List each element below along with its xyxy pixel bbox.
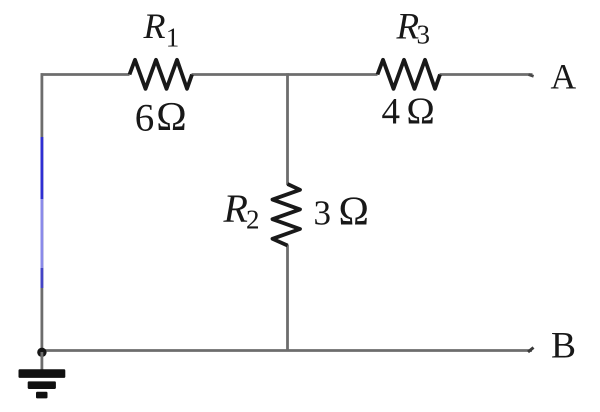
svg-text:R: R bbox=[223, 186, 248, 231]
resistor R1 bbox=[130, 60, 193, 89]
ground bar 1 bbox=[19, 369, 66, 378]
wire left vertical bbox=[41, 73, 44, 351]
wire middle vertical lower (R2 to bottom wire) bbox=[286, 245, 289, 352]
ground stub wire bbox=[41, 352, 44, 371]
svg-text:6: 6 bbox=[135, 97, 155, 140]
svg-text:Ω: Ω bbox=[406, 91, 435, 133]
resistor R3 bbox=[378, 60, 441, 89]
svg-text:3: 3 bbox=[314, 193, 332, 232]
svg-text:Ω: Ω bbox=[338, 187, 370, 233]
wire top-right horizontal (R3 to terminal A) bbox=[440, 73, 533, 76]
wire end tick at B bbox=[528, 348, 534, 353]
label 3 ohm (value of R2) bbox=[314, 187, 370, 233]
ground bar 2 bbox=[28, 381, 56, 389]
label R2 bbox=[223, 186, 260, 234]
svg-text:Ω: Ω bbox=[156, 93, 188, 139]
wire middle vertical upper (node to R2) bbox=[286, 73, 289, 185]
svg-text:R: R bbox=[143, 6, 166, 46]
svg-text:B: B bbox=[551, 325, 576, 366]
svg-text:2: 2 bbox=[246, 204, 260, 234]
wire top-left horizontal (left corner to R1) bbox=[41, 73, 130, 76]
wire top-middle horizontal (R1 to R3) bbox=[192, 73, 378, 76]
resistor R2 bbox=[273, 184, 301, 246]
svg-text:3: 3 bbox=[417, 20, 431, 50]
label 4 ohm (value of R3) bbox=[382, 91, 436, 133]
svg-text:A: A bbox=[551, 57, 577, 97]
wire end tick at A bbox=[529, 75, 534, 77]
label R1 bbox=[143, 6, 180, 52]
wire bottom horizontal (ground corner to terminal B) bbox=[41, 349, 532, 352]
svg-text:4: 4 bbox=[382, 92, 401, 133]
svg-text:1: 1 bbox=[166, 22, 180, 52]
label 6 ohm (value of R1) bbox=[135, 93, 188, 139]
label R3 bbox=[396, 7, 431, 50]
wire left vertical blue highlighted segment bbox=[41, 137, 44, 199]
ground bar 3 bbox=[36, 392, 48, 399]
node junction dot bottom-left bbox=[37, 348, 46, 357]
